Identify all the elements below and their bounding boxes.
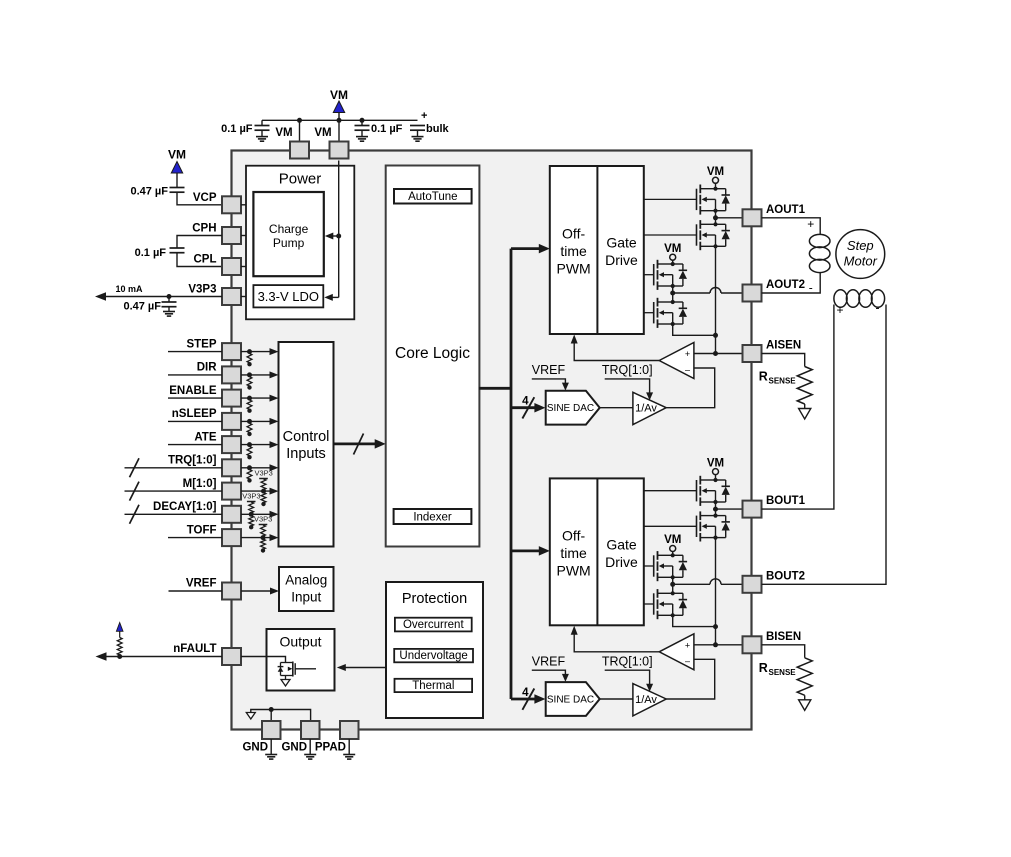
wire BOUT2 to winding B right: [762, 305, 887, 585]
svg-text:GND: GND: [242, 742, 268, 754]
resistor pulldown on nSLEEP: [247, 419, 252, 436]
svg-text:SINE DAC: SINE DAC: [547, 695, 594, 706]
arrowhead nFAULT out: [96, 652, 107, 661]
arrowhead into B Off-time PWM: [539, 546, 550, 556]
bus wire Core Logic output: [479, 387, 511, 390]
arrowhead TOFF into Control Inputs: [270, 534, 279, 541]
wire rail Q3-Q4 B: [672, 577, 674, 593]
wire VREF into DAC (A): [532, 379, 566, 387]
svg-text:-: -: [809, 281, 813, 295]
svg-text:VM: VM: [707, 166, 724, 178]
resistor pull-up on nFAULT: [117, 638, 122, 656]
pin nSLEEP: [222, 413, 241, 430]
bus wire Control Inputs to Core Logic: [334, 442, 383, 445]
wire VM to Q3 drain A: [672, 260, 674, 264]
wire ATE external lead: [168, 444, 222, 446]
svg-text:TOFF: TOFF: [187, 524, 217, 536]
ground (under C6): [163, 311, 175, 313]
wire STEP external lead: [168, 351, 222, 353]
label RSENSE (A): [759, 370, 797, 386]
pin BOUT2: [743, 576, 762, 593]
svg-text:VM: VM: [168, 148, 186, 162]
svg-text:Motor: Motor: [844, 254, 878, 269]
wire DIR external lead: [168, 374, 222, 376]
svg-text:Step: Step: [847, 238, 874, 253]
svg-text:Indexer: Indexer: [413, 512, 452, 524]
svg-text:VREF: VREF: [532, 654, 566, 668]
svg-text:-: -: [876, 301, 880, 315]
V3P3 rail bar for M[1:0]: [259, 478, 268, 480]
svg-text:1/Av: 1/Av: [635, 694, 657, 706]
svg-text:0.47 µF: 0.47 µF: [123, 301, 161, 313]
wire rail Q2 source down A: [715, 246, 717, 335]
bus slash Control-Core: [354, 434, 364, 455]
node BOUT1: [713, 507, 718, 512]
svg-text:+: +: [807, 217, 814, 231]
arrowhead into A SINE DAC: [534, 403, 545, 413]
block Output: [267, 629, 335, 691]
svg-text:AutoTune: AutoTune: [408, 191, 457, 203]
capacitor C1 0.1 uF (left bypass): [255, 120, 270, 136]
svg-text:–: –: [685, 365, 690, 375]
arrowhead into PWM bottom (B): [571, 626, 578, 635]
wire DECAY[1:0] to Control Inputs: [241, 513, 276, 515]
wire VM to Q3 drain B: [672, 552, 674, 556]
wire VM pin-2 down to LDO: [338, 161, 340, 298]
arrowhead ENABLE into Control Inputs: [270, 395, 279, 402]
pin ATE: [222, 436, 241, 453]
ground (Output FET source): [281, 680, 290, 687]
wire Q4 source to rail B: [673, 615, 716, 626]
transistor Q3-A (NMOS with body diode): [654, 260, 687, 290]
wire V3P3 output to the left: [98, 296, 222, 298]
wire STEP to Control Inputs: [241, 351, 276, 353]
wire Q4 source to rail A: [673, 324, 716, 335]
svg-text:Drive: Drive: [605, 554, 638, 570]
wire ENABLE to Control Inputs: [241, 397, 276, 399]
wire VCP pin to Charge Pump: [241, 204, 254, 206]
svg-text:0.1 µF: 0.1 µF: [221, 123, 253, 135]
svg-text:nSLEEP: nSLEEP: [172, 408, 217, 420]
wire rail Q1-Q2 B: [715, 502, 717, 516]
resistor pulldown on STEP: [247, 349, 252, 366]
transistor open-drain output FET: [278, 662, 316, 680]
wire comparator + input (A): [694, 353, 743, 355]
wire gate drive to Q4 A: [644, 312, 654, 314]
inductor motor winding A: [809, 234, 830, 272]
wire nFAULT to the left: [99, 656, 223, 658]
svg-text:AISEN: AISEN: [766, 340, 801, 352]
arrowhead into Charge Pump: [325, 233, 334, 240]
wire nFAULT pin into Output block: [241, 657, 286, 663]
pin DECAY[1:0]: [222, 506, 241, 523]
transistor Q1-B (NMOS with body diode): [697, 476, 730, 506]
svg-text:BOUT2: BOUT2: [766, 570, 805, 582]
bus slash A (4): [522, 397, 534, 418]
bus branch to A Off-time PWM: [511, 247, 546, 250]
bus branch to B Off-time PWM: [511, 550, 546, 553]
wire rail to sense line A: [715, 335, 717, 353]
svg-text:PWM: PWM: [556, 261, 590, 277]
wire VREF into DAC (B): [532, 670, 566, 678]
pin AOUT1: [743, 209, 762, 226]
svg-text:Protection: Protection: [402, 591, 467, 607]
svg-text:VM: VM: [664, 243, 681, 255]
svg-text:+: +: [685, 349, 690, 359]
wire comparator output to PWM (B): [574, 629, 659, 652]
pin VM-1: [290, 142, 309, 159]
wire VREF external lead: [169, 590, 223, 592]
IC body outline (device boundary): [232, 151, 752, 730]
DAC SINE DAC (A): [546, 391, 600, 425]
arrowhead TRQ[1:0] into Control Inputs: [270, 464, 279, 471]
arrowhead into Core Logic: [375, 439, 386, 449]
wire rail Q3-Q4 A: [672, 286, 674, 302]
amplifier 1/Av (A): [633, 392, 666, 424]
block Off-time PWM / Gate Drive (B): [550, 478, 644, 625]
wire CPH pin to Charge Pump: [241, 235, 254, 237]
block Indexer: [394, 509, 472, 524]
wire comparator - feedback (A): [666, 368, 715, 408]
inductor motor winding B: [834, 290, 885, 308]
svg-text:Off-: Off-: [562, 527, 585, 543]
block Thermal: [395, 679, 473, 692]
wire BOUT1 to pin: [716, 508, 743, 510]
wire GND-1 to earth: [270, 739, 272, 755]
svg-text:VM: VM: [707, 457, 724, 469]
svg-text:Gate: Gate: [606, 536, 637, 552]
resistor pulldown on TRQ[1:0]: [247, 465, 252, 482]
block 3.3-V LDO: [253, 285, 323, 307]
pin GND-1: [262, 721, 281, 739]
wire V3P3 pin to LDO: [241, 296, 254, 298]
svg-text:PPAD: PPAD: [315, 742, 346, 754]
power net VM (top supply arrow): [330, 88, 348, 113]
power net VM (VCP charge-pump arrow): [168, 148, 186, 174]
wire VM arrow down to VM pin: [338, 113, 340, 142]
capacitor C3 bulk (polarized): [410, 110, 427, 137]
svg-text:10 mA: 10 mA: [115, 284, 143, 294]
svg-text:Analog: Analog: [285, 573, 327, 588]
wire BOUT1 to winding B left: [762, 305, 834, 510]
wire VM to Charge Pump: [328, 235, 339, 237]
power net VM (A low-side): [664, 243, 681, 260]
transistor Q1-A (NMOS with body diode): [697, 185, 730, 215]
svg-text:TRQ[1:0]: TRQ[1:0]: [168, 455, 217, 467]
power net VM (B low-side): [664, 534, 681, 551]
arrowhead into Output block: [337, 664, 346, 671]
pin M[1:0]: [222, 483, 241, 500]
pin PPAD: [340, 721, 359, 739]
bus slash DECAY[1:0]: [130, 505, 140, 524]
block Off-time PWM / Gate Drive (A): [550, 166, 644, 334]
wire CPH to flying cap C5: [177, 236, 222, 249]
svg-text:SENSE: SENSE: [769, 668, 797, 677]
transistor Q2-B (NMOS with body diode): [697, 511, 730, 541]
arrowhead into Analog Input: [270, 588, 279, 595]
svg-text:Output: Output: [279, 634, 321, 650]
pin AOUT2: [743, 285, 762, 302]
wire Rsense to ground arrow (B): [804, 695, 806, 700]
label Off-time PWM (A): [556, 226, 590, 277]
wire nSLEEP to Control Inputs: [241, 420, 276, 422]
svg-text:DECAY[1:0]: DECAY[1:0]: [153, 501, 217, 513]
svg-text:TRQ[1:0]: TRQ[1:0]: [602, 363, 653, 377]
svg-text:1/Av: 1/Av: [635, 403, 657, 415]
wire ATE to Control Inputs: [241, 444, 276, 446]
wire gate drive to Q4 B: [644, 603, 654, 605]
DAC SINE DAC (B): [546, 682, 600, 716]
transistor Q4-B (NMOS with body diode): [654, 589, 687, 619]
pin GND-2: [301, 721, 320, 739]
wire AISEN to Rsense: [762, 354, 805, 367]
resistor pulldown on ENABLE: [247, 396, 252, 413]
wire gate drive to Q2 B: [644, 525, 697, 527]
arrowhead into PWM bottom (A): [571, 335, 578, 344]
wire gate drive to Q1 A: [644, 198, 697, 200]
svg-text:Overcurrent: Overcurrent: [403, 619, 465, 631]
svg-text:Input: Input: [291, 590, 321, 605]
ground (under GND-2): [304, 754, 316, 756]
power net VM (A high-side): [707, 166, 724, 183]
svg-text:V3P3: V3P3: [254, 515, 272, 524]
arrowhead VREF into DAC (A): [562, 383, 569, 391]
svg-text:GND: GND: [281, 742, 307, 754]
wire rail to sense line B: [715, 627, 717, 645]
svg-text:–: –: [685, 656, 690, 666]
svg-text:CPH: CPH: [192, 223, 216, 235]
capacitor C4 0.47 uF (VCP): [170, 187, 185, 189]
svg-text:TRQ[1:0]: TRQ[1:0]: [602, 654, 653, 668]
arrowhead DECAY[1:0] into Control Inputs: [270, 511, 279, 518]
pin VREF: [222, 583, 241, 600]
svg-text:time: time: [560, 545, 587, 561]
wire BISEN to Rsense: [762, 645, 805, 658]
svg-text:STEP: STEP: [186, 338, 216, 350]
ground (under C1): [256, 136, 268, 138]
svg-text:V3P3: V3P3: [255, 469, 273, 478]
wire TOFF external lead: [168, 537, 222, 539]
wire C4 to VCP pin: [177, 192, 222, 205]
pin BISEN: [743, 636, 762, 653]
wire comparator - feedback (B): [666, 659, 715, 699]
svg-text:VREF: VREF: [532, 363, 566, 377]
pin VCP: [222, 196, 241, 213]
block Protection: [386, 582, 483, 718]
wire AOUT2 with hop over rail: [673, 288, 743, 294]
wire C5 to CPL pin: [177, 253, 222, 267]
bus slash M[1:0]: [130, 482, 140, 501]
svg-text:+: +: [836, 303, 843, 317]
wire DAC to 1/Av (B): [600, 698, 633, 700]
ground (open arrow under Rsense A): [799, 409, 811, 420]
pin TOFF: [222, 529, 241, 546]
bus branch to B SINE DAC: [511, 698, 541, 701]
pin AISEN: [743, 345, 762, 362]
wire rail Q1-Q2 A: [715, 211, 717, 225]
pin nFAULT: [222, 648, 241, 665]
wire VREF pin to Analog Input: [241, 590, 276, 592]
svg-text:ATE: ATE: [194, 431, 216, 443]
wire gate drive to Q3 A: [644, 274, 654, 276]
wire TRQ into 1/Av (B): [605, 670, 650, 688]
label Gate Drive (A): [605, 235, 638, 269]
arrowhead into LDO: [324, 294, 333, 301]
pin VM-2: [330, 142, 349, 159]
label Charge Pump: [269, 222, 309, 250]
pin CPL: [222, 258, 241, 275]
arrowhead nSLEEP into Control Inputs: [270, 418, 279, 425]
node junction sense B: [713, 642, 718, 647]
pin CPH: [222, 227, 241, 244]
svg-text:VCP: VCP: [193, 192, 217, 204]
arrowhead into B SINE DAC: [534, 694, 545, 704]
block Power: [246, 166, 354, 320]
arrowhead TRQ into 1/Av (A): [646, 392, 653, 400]
resistor pull-up/down on M[1:0]: [261, 479, 266, 506]
wire TOFF to Control Inputs: [241, 537, 276, 539]
node junction rails A: [713, 333, 718, 338]
arrowhead DIR into Control Inputs: [270, 371, 279, 378]
svg-text:Inputs: Inputs: [286, 446, 326, 462]
svg-text:4: 4: [522, 687, 529, 699]
node junction VM rail / 0.1uF cap: [360, 118, 365, 123]
wire VM arrow to C4: [176, 173, 178, 188]
svg-text:PWM: PWM: [556, 562, 590, 578]
svg-text:0.47 µF: 0.47 µF: [130, 186, 168, 198]
wire TRQ into 1/Av (A): [605, 379, 650, 397]
wire ground bus to GND-2: [271, 710, 310, 722]
svg-text:AOUT1: AOUT1: [766, 204, 806, 216]
wire ENABLE external lead: [168, 397, 222, 399]
wire AOUT1 to motor winding A: [762, 218, 821, 235]
wire nSLEEP external lead: [168, 420, 222, 422]
svg-text:VREF: VREF: [186, 578, 217, 590]
node junction rails B: [713, 624, 718, 629]
svg-text:Charge: Charge: [269, 222, 309, 236]
wire VM to LDO: [328, 296, 339, 298]
pin V3P3: [222, 288, 241, 305]
node junction ground bus: [269, 707, 274, 712]
V3P3 rail bar for TOFF: [259, 524, 268, 526]
pin DIR: [222, 366, 241, 383]
arrowhead VREF into DAC (B): [562, 674, 569, 682]
wire TRQ[1:0] to Control Inputs: [241, 467, 276, 469]
svg-text:R: R: [759, 370, 768, 384]
bus slash TRQ[1:0]: [130, 458, 140, 477]
svg-text:0.1 µF: 0.1 µF: [135, 247, 167, 259]
label Gate Drive (B): [605, 536, 638, 570]
block Analog Input: [279, 567, 334, 611]
wire winding A to AOUT2: [762, 272, 821, 293]
wire Protection to Output block: [340, 667, 386, 669]
svg-text:M[1:0]: M[1:0]: [183, 478, 217, 490]
capacitor C2 0.1 uF (mid bypass): [355, 120, 370, 136]
V3P3 rail bar for DECAY[1:0]: [247, 501, 256, 503]
bus slash B (4): [522, 689, 534, 710]
wire TRQ[1:0] external lead: [125, 467, 223, 469]
svg-text:0.1 µF: 0.1 µF: [371, 123, 403, 135]
node junction VM / charge pump feed: [336, 234, 341, 239]
bus branch to A SINE DAC: [511, 406, 541, 409]
node BOUT2: [670, 582, 675, 587]
resistor pull-up/down on TOFF: [261, 525, 266, 553]
svg-text:SINE DAC: SINE DAC: [547, 403, 594, 414]
svg-text:3.3-V LDO: 3.3-V LDO: [258, 289, 319, 304]
svg-text:VM: VM: [275, 127, 292, 139]
block AutoTune: [394, 189, 472, 204]
svg-text:Power: Power: [279, 171, 322, 188]
wire DECAY[1:0] external lead: [125, 513, 223, 515]
node AOUT2: [670, 291, 675, 296]
power net VM (B high-side): [707, 457, 724, 474]
arrowhead V3P3 out: [95, 292, 106, 301]
wire comparator output to PWM (A): [574, 338, 659, 361]
wire VM to B high-side drain: [715, 475, 717, 480]
svg-text:ENABLE: ENABLE: [169, 385, 217, 397]
arrowhead TRQ into 1/Av (B): [646, 684, 653, 692]
svg-text:Pump: Pump: [273, 236, 305, 250]
transistor Q3-B (NMOS with body diode): [654, 551, 687, 581]
resistor pull-up/down on DECAY[1:0]: [249, 502, 254, 529]
block Undervoltage: [394, 649, 473, 662]
op-amp current comparator (A): [659, 343, 694, 379]
pin ENABLE: [222, 390, 241, 407]
power arrow (blue) nFAULT pull-up: [116, 623, 123, 638]
svg-text:SENSE: SENSE: [769, 377, 797, 386]
amplifier 1/Av (B): [633, 684, 666, 716]
divider Off-time PWM / Gate Drive (A): [596, 166, 598, 334]
pin TRQ[1:0]: [222, 459, 241, 476]
ground (under GND-1): [265, 754, 277, 756]
wire VM to A high-side drain: [715, 183, 717, 188]
ground (open arrow under Rsense B): [799, 700, 811, 711]
svg-text:BISEN: BISEN: [766, 631, 801, 643]
wire AOUT1 to pin: [716, 217, 743, 219]
wire gate drive to Q1 B: [644, 490, 697, 492]
node junction sense A: [713, 351, 718, 356]
ground (under PPAD): [343, 754, 355, 756]
wire VM pin-1 to rail: [299, 120, 301, 141]
capacitor C6 0.47 uF (V3P3): [162, 297, 177, 312]
resistor RSENSE (B): [797, 658, 812, 696]
divider Off-time PWM / Gate Drive (B): [596, 478, 598, 625]
svg-text:Core Logic: Core Logic: [395, 345, 470, 362]
wire gate drive to Q2 A: [644, 234, 697, 236]
wire CPL pin to Charge Pump: [241, 266, 254, 268]
label Off-time PWM (B): [556, 527, 590, 578]
node junction VM rail / VM arrow: [337, 118, 342, 123]
wire DAC to 1/Av (A): [600, 407, 633, 409]
wire M[1:0] to Control Inputs: [241, 490, 276, 492]
wire M[1:0] external lead: [125, 490, 223, 492]
wire comparator + input (B): [694, 644, 743, 646]
svg-text:time: time: [560, 243, 587, 259]
motor symbol Step Motor: [836, 230, 885, 279]
ground (signal ground arrow): [246, 713, 255, 720]
svg-text:VM: VM: [314, 127, 331, 139]
block Overcurrent: [395, 618, 472, 632]
svg-text:+: +: [421, 110, 427, 122]
svg-text:Undervoltage: Undervoltage: [399, 650, 467, 662]
arrowhead ATE into Control Inputs: [270, 441, 279, 448]
transistor Q2-A (NMOS with body diode): [697, 220, 730, 250]
wire gate drive to Q3 B: [644, 565, 654, 567]
label Analog Input: [285, 573, 327, 605]
resistor RSENSE (A): [797, 367, 812, 405]
arrowhead into A Off-time PWM: [539, 244, 550, 254]
pin STEP: [222, 343, 241, 360]
